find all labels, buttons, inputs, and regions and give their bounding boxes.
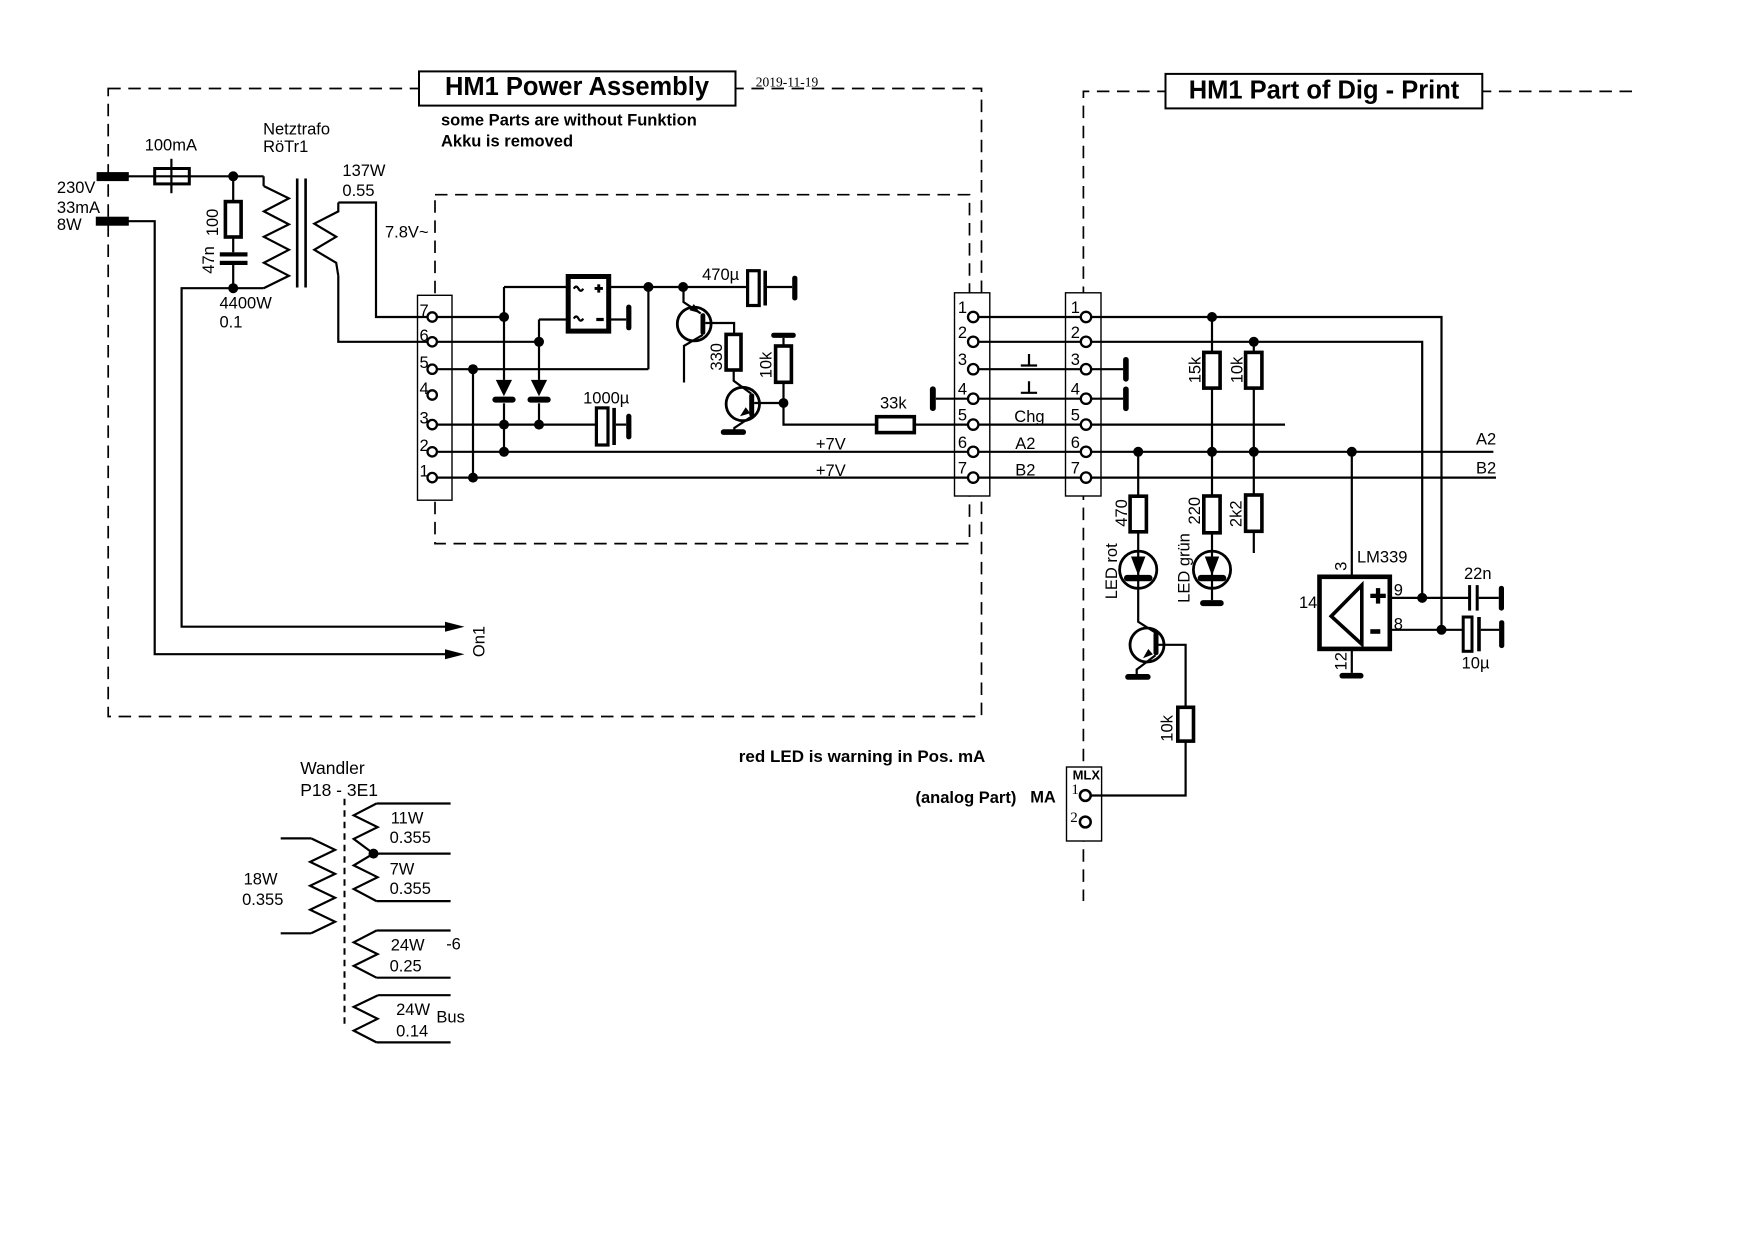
- wire 2k2 open end: [1253, 531, 1255, 553]
- Q2 emitter arrow: [740, 407, 750, 416]
- svg-text:6: 6: [420, 327, 429, 345]
- wire 10k down through A2 to 2k2: [1253, 388, 1255, 495]
- svg-text:6: 6: [1071, 434, 1080, 452]
- svg-text:B2: B2: [1476, 459, 1496, 477]
- diode D2: [531, 380, 547, 396]
- resistor 470: [1130, 496, 1146, 532]
- svg-text:-6: -6: [446, 936, 461, 954]
- wire Q1 emitter from plus junction: [684, 287, 701, 313]
- wire snubber top lead: [232, 176, 234, 201]
- junction Q2 base node: [779, 398, 789, 408]
- wire bridge plus output: [609, 286, 748, 288]
- svg-text:0.55: 0.55: [342, 182, 374, 200]
- svg-text:4: 4: [420, 380, 429, 398]
- junction row7 x473: [468, 473, 478, 483]
- capacitor 47n: [220, 252, 248, 256]
- svg-text:3: 3: [1071, 351, 1080, 369]
- junction row1 at 15k: [1207, 312, 1217, 322]
- wire LED rot to Q3 collector: [1138, 588, 1156, 633]
- svg-text:Akku is removed: Akku is removed: [441, 132, 573, 150]
- wire row2 junction down to 10k: [1253, 342, 1255, 353]
- terminal 8W input: [97, 218, 128, 225]
- svg-text:On1: On1: [471, 626, 489, 657]
- capacitor 10u: [1463, 617, 1472, 651]
- supply bar above 10k: [771, 333, 796, 338]
- wire 15k down through A2 to 220: [1211, 388, 1213, 496]
- resistor 100: [225, 202, 241, 237]
- svg-text:0.14: 0.14: [396, 1023, 428, 1041]
- wire 470u to ground bar: [767, 286, 792, 288]
- wire vertical x539 bridge AC2: [538, 320, 540, 380]
- wire Q3 base to 10k: [1158, 645, 1185, 708]
- wire Q2 base to 10k node: [754, 402, 783, 404]
- wire row2 K1 pin6 to rectifier: [432, 341, 539, 343]
- svg-text:0.25: 0.25: [390, 957, 422, 975]
- wire secondary top lead to K1 pin7: [338, 203, 432, 318]
- svg-text:14: 14: [1299, 594, 1317, 612]
- svg-text:Wandler: Wandler: [300, 758, 365, 778]
- resistor 10k: [776, 346, 792, 382]
- Q3 emitter arrow: [1143, 649, 1153, 658]
- svg-text:12: 12: [1333, 652, 1351, 670]
- title box HM1 Power Assembly: [419, 71, 736, 105]
- svg-text:220: 220: [1186, 497, 1204, 525]
- svg-text:1: 1: [958, 299, 967, 317]
- connector K1 pin 3: [428, 420, 437, 429]
- svg-text:MLX: MLX: [1073, 767, 1101, 782]
- svg-text:18W: 18W: [244, 871, 278, 889]
- wire LM339 pin12 to ground: [1351, 649, 1353, 673]
- wire secondary bottom lead to K1 pin6: [338, 276, 432, 342]
- svg-text:7.8V~: 7.8V~: [385, 224, 429, 242]
- svg-text:1: 1: [1071, 782, 1079, 798]
- svg-text:LED rot: LED rot: [1103, 543, 1121, 599]
- connector K3 pin 2: [1081, 337, 1091, 347]
- svg-text:(analog Part): (analog Part): [916, 789, 1017, 807]
- junction row3 x473: [468, 364, 478, 374]
- svg-text:0.355: 0.355: [390, 880, 431, 898]
- connector K1 pin 2: [428, 447, 437, 456]
- svg-text:+7V: +7V: [816, 435, 846, 453]
- resistor 15k: [1204, 352, 1220, 388]
- junction row5 x504: [499, 420, 509, 430]
- connector K2 body: [955, 293, 990, 496]
- resistor 10k base: [1178, 707, 1194, 741]
- wire 22n to ground bar: [1479, 597, 1499, 599]
- wire from snubber bottom down to On1: [182, 288, 447, 627]
- wire row6 A2 rail: [1086, 451, 1493, 453]
- transformer RöTr1 secondary winding: [314, 203, 338, 276]
- wire LM339 pin8 to 10u: [1390, 629, 1463, 631]
- svg-text:2: 2: [420, 437, 429, 455]
- svg-text:10µ: 10µ: [1462, 655, 1490, 673]
- svg-text:P18 - 3E1: P18 - 3E1: [300, 780, 378, 800]
- junction row6 x504: [499, 447, 509, 457]
- svg-text:5: 5: [1071, 407, 1080, 425]
- svg-text:Bus: Bus: [436, 1009, 464, 1027]
- connector K1 pin 1: [428, 473, 437, 482]
- wire primary top: [263, 176, 265, 186]
- wire row3 K3 pin3 to ground bar: [1086, 368, 1123, 370]
- connector K3 pin 7: [1081, 472, 1091, 482]
- ground bar at K2 pin4: [930, 386, 936, 411]
- resistor 10k right: [1246, 352, 1262, 388]
- wire row5 Chg stub: [1086, 424, 1285, 426]
- wire base node down to 33k row: [784, 403, 877, 425]
- diode D1: [496, 380, 512, 396]
- fuse F1 100mA: [155, 169, 190, 184]
- arrow On1 upper: [445, 622, 465, 632]
- junction A2 row at 2k2: [1249, 447, 1259, 457]
- wire row7 B2 rail: [1086, 477, 1496, 479]
- junction row2 at 10k: [1249, 337, 1259, 347]
- connector MLX pin 1: [1080, 790, 1091, 801]
- svg-text:22n: 22n: [1464, 565, 1492, 583]
- junction row5 x539: [534, 420, 544, 430]
- title box HM1 Part of Dig - Print: [1166, 74, 1483, 109]
- wire x473 vertical row3 to row7: [472, 369, 474, 477]
- connector K3 pin 1: [1081, 312, 1091, 322]
- svg-text:2: 2: [958, 324, 967, 342]
- connector K1 pin 4: [428, 390, 437, 399]
- wire K2 pin5 to K3 pin5 Chg: [973, 424, 1086, 426]
- wire vertical x504 bridge AC1: [503, 287, 505, 380]
- wire 10u to ground bar: [1481, 629, 1499, 631]
- connector MLX body: [1067, 767, 1102, 841]
- svg-text:A2: A2: [1015, 435, 1035, 453]
- resistor 220: [1204, 496, 1220, 533]
- svg-text:2k2: 2k2: [1228, 500, 1246, 527]
- ground bar at LED gruen: [1200, 600, 1224, 606]
- op-amp comparator LM339: [1320, 577, 1390, 649]
- svg-text:3: 3: [958, 351, 967, 369]
- ground bar at Q3 emitter: [1125, 674, 1150, 680]
- svg-text:3: 3: [1333, 562, 1351, 571]
- svg-text:Chg: Chg: [1014, 408, 1044, 426]
- capacitor 1000u: [596, 408, 608, 445]
- wire row3 K1 pin5 to bridge plus column: [432, 368, 648, 370]
- junction bridge plus x648: [643, 282, 653, 292]
- svg-text:470: 470: [1113, 499, 1131, 527]
- connector K2 pin 3: [968, 364, 978, 374]
- connector K1 pin 7: [428, 312, 437, 321]
- svg-text:4: 4: [958, 381, 967, 399]
- ground bar at 22n: [1499, 586, 1504, 611]
- connector K2 pin 2: [968, 337, 978, 347]
- junction bridge plus x683: [678, 282, 688, 292]
- wire K2 pin6 to K3 pin6 A2: [973, 451, 1086, 453]
- wire 220 to LED gruen: [1211, 533, 1213, 551]
- capacitor 22n: [1468, 585, 1471, 611]
- wire row4 K3 pin4 to ground bar: [1086, 398, 1123, 400]
- svg-text:6: 6: [958, 434, 967, 452]
- svg-text:24W: 24W: [391, 937, 425, 955]
- wire 1000u to ground bar: [616, 424, 626, 426]
- svg-text:470µ: 470µ: [702, 266, 740, 284]
- svg-text:4: 4: [1071, 381, 1080, 399]
- transformer RöTr1 core: [296, 179, 299, 288]
- ground bar at Q2 emitter: [721, 429, 746, 435]
- frame: inner power-supply dashed box: [435, 195, 970, 544]
- wire bridge input bottom: [539, 318, 568, 320]
- svg-text:MA: MA: [1030, 789, 1056, 807]
- LED gruen: [1193, 551, 1230, 588]
- frame: Part of Dig-Print dashed boundary: [1083, 91, 1632, 901]
- wire A2 junction down to 470: [1137, 452, 1139, 496]
- ground bar at bridge minus: [626, 305, 631, 331]
- wire LED gruen to ground: [1211, 588, 1213, 600]
- svg-text:1: 1: [420, 463, 429, 481]
- wire Q1 base to 330: [705, 323, 734, 334]
- wire row2 K3 pin2 to right: [1086, 342, 1422, 598]
- connector K3 pin 5: [1081, 419, 1091, 429]
- svg-text:some Parts are without Funktio: some Parts are without Funktion: [441, 112, 697, 130]
- connector K2 pin 1: [968, 312, 978, 322]
- svg-text:5: 5: [420, 354, 429, 372]
- svg-text:2: 2: [1071, 324, 1080, 342]
- svg-text:HM1 Part of Dig - Print: HM1 Part of Dig - Print: [1189, 77, 1460, 105]
- ground bar row3: [1123, 357, 1129, 382]
- wire bar to 10k: [782, 338, 784, 346]
- transistor Q3: [1130, 628, 1164, 662]
- svg-text:33k: 33k: [880, 395, 907, 413]
- svg-text:8: 8: [1394, 615, 1403, 633]
- junction node at snubber bottom: [228, 283, 238, 293]
- wire bridge input top: [504, 286, 568, 288]
- arrow On1 lower: [445, 649, 465, 659]
- frame: HM1 Power Assembly dashed boundary: [108, 89, 981, 717]
- svg-text:4400W: 4400W: [220, 295, 273, 313]
- svg-text:7: 7: [420, 302, 429, 320]
- svg-text:11W: 11W: [391, 809, 424, 827]
- wire resistor to cap: [232, 237, 234, 252]
- resistor 33k: [877, 417, 915, 433]
- wire K2 pin7 to K3 pin7 B2: [973, 477, 1086, 479]
- wire 10k to base node: [782, 382, 784, 403]
- connector K2 pin 4: [968, 394, 978, 404]
- wandler secondary 24W 0.25 winding: [377, 929, 451, 931]
- Q1 emitter arrow: [690, 304, 701, 313]
- svg-text:2: 2: [1070, 810, 1078, 826]
- wire K2 pin2 to K3 pin2: [973, 341, 1086, 343]
- wire from 8W terminal down to On1: [128, 221, 447, 654]
- wire vertical bridge plus to row3: [647, 287, 649, 369]
- junction node at snubber top: [228, 171, 238, 181]
- bridge rectifier B1: [568, 277, 609, 332]
- wire LM339 pin9 to 22n: [1390, 597, 1470, 599]
- svg-text:RöTr1: RöTr1: [263, 138, 308, 156]
- wire Q2 emitter: [734, 417, 751, 431]
- wire K2 pin3 to K3 pin3: [973, 368, 1086, 370]
- junction A2 row at 470: [1133, 447, 1143, 457]
- svg-text:LM339: LM339: [1357, 549, 1407, 567]
- transistor Q1: [677, 307, 711, 341]
- wire primary bottom: [233, 287, 263, 289]
- junction A2 row at 220: [1207, 447, 1217, 457]
- wire row1 K1 pin7 to rectifier: [432, 316, 504, 318]
- wire row7 +7V rail K1 pin1 to K2 pin7: [432, 477, 973, 479]
- svg-text:137W: 137W: [342, 162, 386, 180]
- resistor 330: [726, 334, 741, 370]
- wire K2 pin4 to ground bar: [936, 398, 973, 400]
- svg-text:HM1 Power Assembly: HM1 Power Assembly: [445, 73, 710, 101]
- junction pin8 node: [1437, 625, 1447, 635]
- junction row1 x504: [499, 312, 509, 322]
- terminal 230V input: [98, 173, 128, 180]
- junction A2 row at LM339 pin3: [1347, 447, 1357, 457]
- wire K2 pin1 to K3 pin1: [973, 316, 1086, 318]
- svg-text:3: 3: [420, 410, 429, 428]
- wire bridge minus output: [609, 318, 627, 320]
- wire K2 pin4 to K3 pin4: [973, 398, 1086, 400]
- svg-text:Netztrafo: Netztrafo: [263, 121, 330, 139]
- svg-text:7: 7: [1071, 460, 1080, 478]
- svg-text:0.1: 0.1: [220, 314, 243, 332]
- svg-text:7W: 7W: [390, 861, 415, 879]
- svg-text:1000µ: 1000µ: [583, 390, 630, 408]
- wire 10k to MLX pin1: [1085, 741, 1185, 795]
- svg-text:7: 7: [958, 460, 967, 478]
- svg-text:8W: 8W: [57, 216, 82, 234]
- ground symbol row4 between connectors: [1021, 381, 1037, 393]
- wandler core: [344, 799, 346, 1028]
- transistor Q2: [726, 387, 759, 420]
- wire row1 K3 pin1 to right: [1086, 317, 1442, 630]
- svg-text:24W: 24W: [396, 1001, 430, 1019]
- svg-text:10k: 10k: [758, 351, 776, 378]
- connector K1 pin 6: [428, 337, 437, 346]
- junction center tap: [369, 849, 379, 859]
- capacitor 470u: [748, 271, 760, 306]
- connector K1 body: [418, 295, 453, 500]
- svg-text:red LED is warning in Pos. mA: red LED is warning in Pos. mA: [739, 747, 986, 766]
- connector K2 pin 5: [968, 419, 978, 429]
- connector K3 pin 3: [1081, 364, 1091, 374]
- svg-text:47n: 47n: [200, 246, 218, 274]
- junction row2 x539: [534, 337, 544, 347]
- svg-text:230V: 230V: [57, 179, 96, 197]
- connector K2 pin 7: [968, 472, 978, 482]
- svg-text:+7V: +7V: [816, 462, 846, 480]
- resistor 2k2: [1246, 495, 1262, 531]
- connector K1 pin 5: [428, 365, 437, 374]
- wire 330 to Q2 collector: [734, 370, 752, 394]
- wire 33k to K2 pin5: [914, 424, 973, 426]
- LED rot: [1120, 551, 1157, 588]
- connector K3 pin 6: [1081, 447, 1091, 457]
- wire LM339 pin3 from A2: [1351, 452, 1353, 577]
- svg-text:0.355: 0.355: [390, 829, 431, 847]
- wandler secondary 11W-7W winding: [377, 802, 451, 804]
- ground bar row4: [1123, 387, 1129, 412]
- ground symbol row3 between connectors: [1021, 354, 1037, 366]
- connector K2 pin 6: [968, 447, 978, 457]
- svg-text:LED grün: LED grün: [1176, 533, 1194, 603]
- wire Q3 emitter: [1137, 655, 1156, 674]
- wire mains live to fuse and transformer: [128, 175, 264, 177]
- svg-text:5: 5: [958, 407, 967, 425]
- transformer RöTr1 primary winding: [264, 186, 289, 288]
- wire cap bottom lead: [232, 265, 234, 288]
- svg-text:A2: A2: [1476, 431, 1496, 449]
- wire row5 K1 pin3 to 1000u: [432, 424, 596, 426]
- wire row6 +7V rail K1 pin2 to K2 pin6: [432, 451, 973, 453]
- svg-text:1: 1: [1071, 299, 1080, 317]
- wire row1 junction down to 15k: [1211, 317, 1213, 352]
- svg-text:33mA: 33mA: [57, 199, 100, 217]
- svg-text:0.355: 0.355: [242, 891, 283, 909]
- svg-text:330: 330: [708, 343, 726, 371]
- svg-text:10k: 10k: [1228, 356, 1246, 383]
- svg-text:2019-11-19: 2019-11-19: [756, 75, 819, 90]
- wandler primary 18W winding: [281, 837, 312, 839]
- ground bar at 1000u: [626, 414, 631, 440]
- wandler secondary 24W Bus winding: [378, 994, 451, 996]
- ground bar at 10u: [1499, 620, 1504, 648]
- connector MLX pin 2: [1080, 817, 1091, 828]
- junction pin9 node: [1417, 593, 1427, 603]
- svg-text:100mA: 100mA: [145, 137, 197, 155]
- svg-text:10k: 10k: [1159, 714, 1177, 741]
- ground bar at 470u: [792, 276, 797, 301]
- svg-text:15k: 15k: [1186, 356, 1204, 383]
- connector K3 pin 4: [1081, 394, 1091, 404]
- svg-text:B2: B2: [1015, 462, 1035, 480]
- wire center tap lead: [374, 852, 451, 854]
- connector K3 body: [1066, 293, 1102, 496]
- wire 470 to LED rot: [1137, 532, 1139, 551]
- svg-text:9: 9: [1394, 581, 1403, 599]
- ground bar at LM339 pin12: [1340, 673, 1364, 679]
- wire Q1 collector open end: [684, 335, 703, 383]
- svg-text:100: 100: [204, 209, 222, 237]
